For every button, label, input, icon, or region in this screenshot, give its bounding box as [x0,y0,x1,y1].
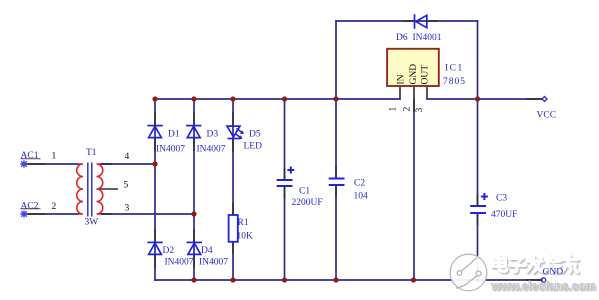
port AC1 marker [20,159,40,168]
pin D5 top [232,113,234,126]
pin AC2 port [26,213,45,215]
pin VCC port [526,98,542,100]
wire D1 D2 branch vertical [154,99,156,280]
watermark chinese text [490,253,599,279]
diode D3 [186,126,201,138]
wire AC2 to transformer pin2 [26,213,78,215]
IC U1 7805 body [387,49,439,86]
junction D5 top rail [230,96,235,101]
junction D1 top rail [152,96,157,101]
diode D2 [147,242,162,254]
wire C2 branch lower [335,185,337,280]
wire C3 branch lower [477,213,479,280]
pin IC1 pin2 [413,87,415,113]
wire main rail left segment [155,98,400,100]
junction C1 top rail [282,96,287,101]
transformer T1 secondary coil [97,164,103,214]
junction D4 ground rail [191,277,196,282]
junction C3 top rail [475,96,480,101]
wire IC pin2 to ground rail [413,99,415,280]
watermark logo circle [450,254,487,291]
svg-text:GND: GND [543,268,564,278]
port AC2 marker [20,209,40,218]
junction C1 ground rail [282,277,287,282]
pin D2 top [154,230,156,243]
pin transformer 3 [101,213,112,215]
wire D5 R1 branch vertical lower [232,242,234,280]
pin D2 bottom [154,255,156,268]
pin C1 top [284,168,286,180]
diode D1 [147,126,162,138]
transformer T1 primary coil [77,164,83,214]
wire top loop left vertical [335,21,337,99]
pin transformer 4 [101,163,112,165]
junction C2 top rail [333,96,338,101]
wire top loop right vertical [477,21,479,99]
pin D4 bottom [193,255,195,268]
wire top loop horizontal [336,20,478,22]
transformer T1 core [88,163,92,217]
junction IC pin2 ground rail [411,277,416,282]
diode D6 [415,14,427,29]
junction R1 ground rail [230,277,235,282]
pin D6 right [427,20,438,22]
pin D4 top [193,230,195,243]
junction D3 top rail [191,96,196,101]
pin C2 top [335,166,337,179]
pin C1 bottom [284,186,286,198]
pin AC1 port [26,163,45,165]
pin C2 bottom [335,185,337,197]
diode D4 [187,242,202,254]
capacitor C1 [277,167,295,187]
pin R1 bottom [232,242,234,254]
watermark url text [492,280,596,293]
pin D1 bottom [154,138,156,151]
wire transformer pin4 to bridge [101,163,155,165]
pin C3 bottom [477,213,479,225]
port VCC marker [542,97,547,102]
junction C3 ground rail [475,277,480,282]
pin C3 top [477,194,479,206]
wire D5 R1 branch vertical upper [232,99,234,215]
pin D6 left [403,20,414,22]
wire C1 branch lower [284,186,286,280]
port GND marker [541,278,545,282]
pin D3 top [193,113,195,126]
junction C2 ground rail [333,277,338,282]
resistor R1 [229,215,238,242]
pin GND port [526,279,541,281]
pin transformer 5 stub [97,188,118,190]
pin D3 bottom [193,138,195,151]
wire C2 branch upper [335,99,337,179]
wire C1 branch upper [284,99,286,180]
wire C3 branch upper [477,99,479,206]
pin IC1 pin3 [426,87,428,100]
capacitor C3 [470,193,488,213]
pin R1 top [232,203,234,215]
capacitor C2 [329,179,345,186]
wire main rail right segment [427,98,542,100]
LED D5 [227,126,244,139]
junction transformer pin4 bridge [152,161,157,166]
wire AC1 to transformer pin1 [26,163,78,165]
pin D5 bottom [232,139,234,152]
wire ground rail [155,279,542,281]
junction transformer pin3 bridge [191,211,196,216]
wire D3 D4 branch vertical [193,99,195,280]
pin IC1 pin1 [399,87,401,100]
wire transformer pin3 to bridge [101,213,194,215]
pin D1 top [154,113,156,126]
